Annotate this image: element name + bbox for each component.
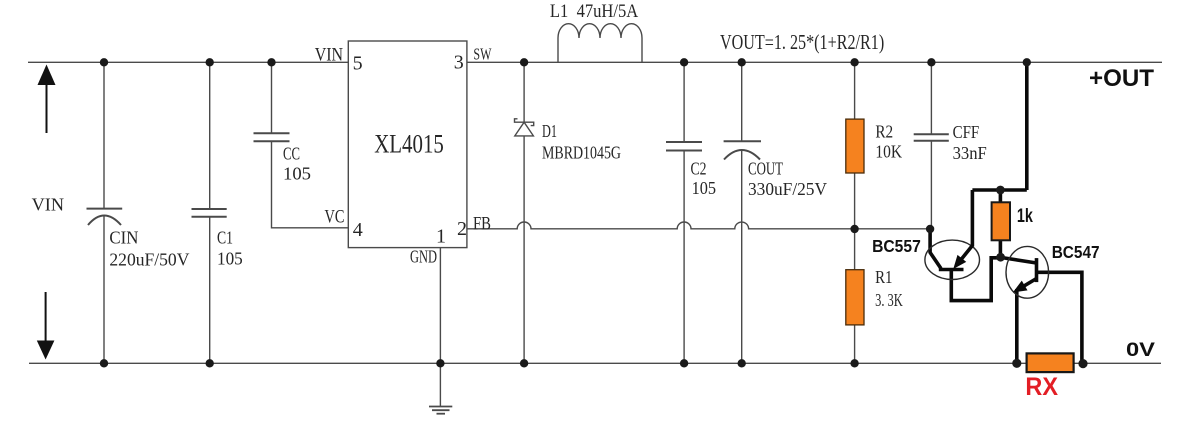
node dot FB CFF base [926,225,934,233]
svg-text:33nF: 33nF [953,143,987,163]
svg-text:R1: R1 [875,267,892,287]
node dot 0V BC547 emitter [1012,359,1021,368]
svg-text:BC547: BC547 [1052,242,1100,262]
wire C2 top [683,62,685,142]
svg-text:MBRD1045G: MBRD1045G [542,142,621,162]
capacitor CC [254,133,290,141]
transistor Q2 BC547 [1006,246,1049,298]
svg-text:+OUT: +OUT [1089,65,1154,92]
wire CFF top [930,62,932,134]
node dot 0V C1 [206,359,214,367]
wire D1 cathode [523,62,525,122]
wire R1 bottom [854,325,856,363]
wire COUT bottom [741,151,743,363]
arrow VIN down [37,292,55,360]
svg-text:RX: RX [1025,373,1058,401]
node dot rail C1 [206,58,214,66]
resistor 1k [992,202,1010,240]
capacitor C1 [192,209,227,217]
chip XL4015 box [348,41,467,248]
capacitor CIN [87,209,123,225]
wire BC557 collector [951,258,1000,301]
transistor Q1 BC557 [925,240,980,279]
svg-text:220uF/50V: 220uF/50V [109,250,189,270]
svg-text:COUT: COUT [748,158,783,178]
node dot 1k bottom [996,253,1005,262]
wire D1 anode [523,136,525,363]
wire +OUT drop thick [1025,62,1029,190]
node dot rail C2 [680,58,688,66]
wire 1k top lead [999,190,1003,203]
svg-text:3: 3 [454,51,464,73]
svg-text:1k: 1k [1017,206,1033,227]
capacitor CFF [914,134,949,141]
svg-text:R2: R2 [875,122,893,142]
svg-text:D1: D1 [542,121,557,141]
wire 1k bottom lead [999,240,1003,257]
capacitor C2 [666,142,702,151]
node dot FB R2R1 [850,225,858,233]
node dot rail CFF [927,58,935,66]
node dot 0V CIN [100,359,108,367]
wire FB line with hops [467,222,932,229]
arrow VIN up [38,65,56,134]
wire thick horizontal to 1k top [972,188,1026,192]
svg-text:2: 2 [457,218,467,240]
node dot 0V C2 [680,359,688,367]
svg-text:CC: CC [283,144,300,164]
svg-text:VIN: VIN [32,195,64,215]
ground symbol [429,363,452,413]
svg-text:0V: 0V [1126,339,1155,361]
svg-text:C1: C1 [217,227,233,247]
node dot rail R2 [850,58,858,66]
wire CIN bottom [103,216,105,364]
svg-text:VIN: VIN [315,45,343,65]
wire CC top [271,62,273,133]
wire top rail left [28,61,348,63]
svg-text:FB: FB [473,214,491,234]
wire top rail right [467,61,1162,63]
node dot rail CIN [100,58,108,66]
wire R2 top [854,62,856,119]
inductor L1 [558,24,642,63]
wire BC547 collector [1037,272,1082,363]
node dot 0V COUT [738,359,746,367]
node dot 1k top [996,186,1005,195]
wire CFF bottom [930,141,932,229]
wire C1 top [209,62,211,209]
resistor RX [1027,353,1074,372]
node dot rail COUT [738,58,746,66]
svg-text:105: 105 [217,249,243,269]
svg-text:CFF: CFF [953,122,980,142]
svg-text:L1 47uH/5A: L1 47uH/5A [550,1,639,22]
svg-text:VOUT=1. 25*(1+R2/R1): VOUT=1. 25*(1+R2/R1) [720,30,884,54]
wire CIN top [103,62,105,208]
wire BC557 emitter feed [971,190,975,247]
wire C2 bottom [683,151,685,364]
node dot rail D1 [520,58,528,66]
svg-text:105: 105 [283,164,311,184]
svg-text:BC557: BC557 [872,236,921,256]
wire GND pin1 [439,248,441,364]
wire BC547 emitter lead [1015,289,1019,363]
node dot 0V R1 [850,359,858,367]
diode D1 schottky [515,119,534,136]
wire CC to VC pin [272,141,349,228]
svg-text:5: 5 [353,52,363,74]
svg-text:VC: VC [325,208,345,228]
svg-text:CIN: CIN [109,227,138,247]
svg-text:XL4015: XL4015 [374,130,444,159]
wire BC557 base lead [930,229,941,269]
svg-text:C2: C2 [691,158,707,178]
resistor R1 [846,270,864,325]
wire COUT top [741,62,743,141]
wire C1 bottom [209,217,211,364]
node dot rail CC [267,58,275,66]
svg-text:SW: SW [473,45,492,64]
svg-text:10K: 10K [875,142,902,162]
node dot rail +OUT drop [1023,58,1031,66]
svg-text:3. 3K: 3. 3K [875,290,903,310]
node dot 0V D1 [520,359,528,367]
svg-text:1: 1 [436,225,446,247]
wire R2 bottom to FB [854,173,856,270]
svg-text:105: 105 [692,178,716,198]
svg-text:330uF/25V: 330uF/25V [748,179,827,199]
resistor R2 [846,119,864,173]
node dot 0V GND [436,359,444,367]
node dot 0V RX right [1078,359,1087,368]
capacitor COUT [724,141,761,159]
svg-text:GND: GND [410,247,437,267]
wire BC547 base lead [1001,257,1037,263]
wire 0V bottom rail [29,362,1161,364]
svg-text:4: 4 [353,219,363,241]
